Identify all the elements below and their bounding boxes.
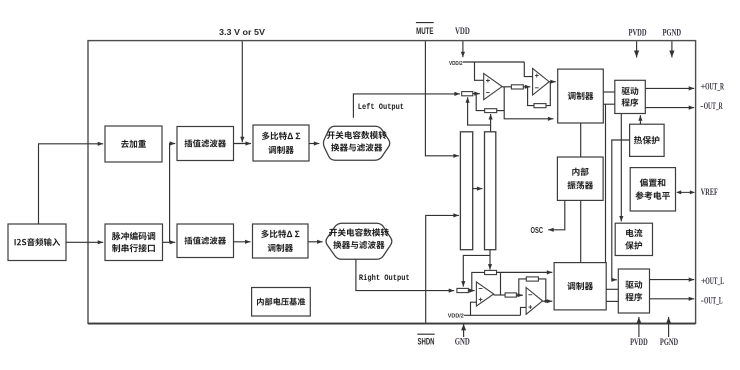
wire R1 to U1 inverting input (473, 92, 480, 96)
wire GND to frame (arrow up) (461, 324, 466, 337)
net label OSC (531, 225, 544, 235)
wire Left Output from DAC to amplifier input (353, 92, 460, 118)
svg-text:PVDD: PVDD (630, 338, 648, 348)
op-amp U1 (484, 73, 502, 99)
wire 3.3V supply into digital section (240, 41, 244, 142)
wire I2S input to PCM serial interface (66, 240, 103, 244)
resistor R4 U2 feedback (534, 104, 546, 108)
wire U1 feedback loop (476, 94, 485, 111)
wire bottom interpolation filter to multibit modulator (234, 240, 251, 244)
block output driver (top) (615, 80, 646, 113)
wire top interpolation filter to multibit modulator (234, 141, 252, 145)
block PWM modulator (bottom) (554, 263, 606, 310)
pin -OUT_L (701, 296, 723, 307)
svg-text:VREF: VREF (701, 187, 718, 198)
block internal voltage reference (252, 288, 311, 317)
resistor R1 top-channel input (462, 92, 473, 96)
resistor R6 U3 feedback (485, 270, 497, 274)
op-amp U3 (476, 282, 493, 306)
resistor R2 U1 feedback (485, 109, 497, 113)
svg-text:Right Output: Right Output (359, 273, 410, 283)
IC boundary frame (88, 41, 696, 324)
wire PVDD (bottom) arrow into frame (636, 317, 641, 337)
wire -OUT_R output (645, 106, 694, 110)
wire U2 feedback to output (546, 82, 550, 106)
svg-text:MUTE: MUTE (416, 26, 433, 36)
wire U3 output node riser (500, 272, 502, 295)
wire SHDN to DWA block (426, 213, 459, 322)
block PCM serial interface (105, 224, 163, 261)
node VDD/2 rail (bottom) (464, 314, 521, 316)
wire U2 feedback loop (528, 87, 534, 106)
wire R3 to U2 inverting input (523, 85, 530, 89)
wire U3 feedback to output node and second modulator input (497, 270, 553, 274)
pin -OUT_R (700, 101, 723, 112)
svg-text:Left Output: Left Output (358, 102, 404, 112)
wire PGND (top) into frame (669, 41, 674, 57)
wire column2 bottom to R6 feedback (arrow down) (488, 255, 492, 269)
block thermal protection (630, 124, 665, 156)
wire VDD to VDD/2 reference (top) (461, 41, 465, 57)
net label Left Output (358, 102, 404, 112)
wire oscillator OSC tap (548, 200, 565, 232)
pin GND (455, 337, 470, 348)
svg-text:PGND: PGND (660, 338, 678, 348)
wire MUTE to DWA block (425, 41, 459, 158)
block PWM modulator (top) (558, 69, 604, 123)
wire top modulator to SC-DAC (309, 141, 319, 145)
wire column1 to column2 (473, 187, 483, 191)
pin PVDD (top) (629, 29, 647, 39)
wire R7 to U4 inverting input (516, 293, 523, 297)
resistor R7 interstage (505, 293, 516, 297)
junction dot U4 feedback-output (544, 300, 547, 303)
resistor R5 bottom-channel input (457, 288, 469, 292)
block bias and reference level (630, 168, 675, 211)
block interpolation filter (bottom) (177, 224, 234, 258)
wire VREF bidirectional (676, 190, 695, 194)
wire modulator to driver (lower) (603, 103, 615, 105)
wire R5 to U3 inverting input (468, 289, 474, 293)
wire Right Output from DAC to amplifier input (356, 259, 454, 293)
wire +OUT_R output (645, 86, 694, 90)
wire U4 output to modulator (543, 299, 553, 303)
wire U4 feedback loop (519, 279, 527, 295)
pin +OUT_R (700, 82, 724, 93)
block multi-bit delta-sigma modulator (bottom) (253, 224, 309, 258)
block de-emphasis (qu-jia-zhong) (105, 126, 162, 162)
wire thermal-protection feed to bottom driver (611, 140, 629, 282)
op-amp U2 (533, 68, 550, 95)
svg-text:SHDN: SHDN (418, 336, 435, 346)
svg-text:OUT_R: OUT_R (705, 82, 725, 93)
wire U3 output to R7 (494, 294, 505, 296)
svg-text:OUT_R: OUT_R (704, 101, 724, 112)
svg-text:VDD/2: VDD/2 (448, 313, 464, 319)
svg-text:VDD/2: VDD/2 (449, 61, 463, 67)
pin MUTE (active-low, overbar) (416, 23, 434, 36)
block current protection (615, 223, 652, 255)
wire top driver to current-protection (619, 114, 623, 222)
op-amp U4 (526, 288, 542, 315)
block DWA switch column 1 (460, 132, 472, 250)
node VDD/2 rail (top) (463, 61, 524, 63)
node VDD/2 label (top) (449, 61, 463, 67)
pin VDD (455, 27, 470, 37)
wire column2 top to R2 feedback (arrow up) (489, 114, 493, 132)
wire U2 output to modulator (549, 80, 556, 84)
block I2S audio input (8, 224, 66, 261)
wire top driver tap down to bottom driver input (605, 104, 607, 262)
wire U4 feedback to output (538, 279, 545, 301)
block switched-capacitor DAC and filter (top hexagon) (323, 126, 389, 160)
pin VREF (701, 187, 718, 198)
block internal oscillator (557, 157, 603, 200)
wire modulator to driver (upper) (603, 91, 615, 93)
wire +OUT_L output (650, 278, 695, 282)
wire U1 output to R3 (502, 86, 511, 88)
block DWA switch column 2 (485, 132, 496, 250)
wire top modulator to oscillator (580, 123, 582, 157)
wire bottom modulator to driver (lower) (606, 300, 618, 302)
wire oscillator to bottom modulator (580, 200, 582, 262)
block interpolation filter (top) (177, 127, 234, 161)
wire VDD/2 to U1 noninverting input (475, 62, 484, 80)
wire VDD/2 to U3 noninverting input (471, 302, 477, 315)
svg-text:OUT_L: OUT_L (704, 296, 723, 307)
block multi-bit delta-sigma modulator (top) (253, 125, 309, 161)
wire thermal protection to top driver (arrow up) (638, 115, 642, 124)
wire VDD/2 to U2 noninverting input (524, 62, 532, 77)
pin SHDN (active-low, overbar) (417, 334, 434, 346)
wire PGND (bottom) arrow into frame (666, 317, 671, 337)
wire U3 feedback loop (472, 272, 485, 290)
resistor R3 interstage (511, 85, 523, 89)
wire VDD/2 to U4 noninverting input (521, 307, 527, 315)
wire column2 bottom branch to R5 (arrow down) (461, 255, 490, 286)
pin PVDD (bottom) (630, 338, 648, 348)
wire U1 output node to second modulator input (504, 87, 553, 121)
wire column2 branch to R1 (arrow up) (466, 97, 491, 125)
wire I2S input riser to de-emphasis (39, 142, 104, 224)
wire bottom modulator to SC-DAC (308, 240, 323, 244)
pin PGND (bottom) (660, 338, 678, 348)
svg-text:OUT_L: OUT_L (705, 276, 724, 287)
pin +OUT_L (701, 276, 724, 287)
node VDD/2 label (bottom) (448, 313, 464, 319)
resistor R8 U4 feedback (526, 277, 538, 281)
svg-text:3.3 V or 5V: 3.3 V or 5V (219, 27, 265, 37)
svg-text:VDD: VDD (455, 27, 470, 37)
block switched-capacitor DAC and filter (bottom hexagon) (326, 223, 392, 259)
supply label 3.3V-or-5V (219, 27, 265, 37)
wire branch riser to top interpolation filter (170, 141, 176, 242)
wire bottom modulator to driver (upper) (606, 288, 618, 290)
wire -OUT_L output (650, 297, 695, 301)
wire PCM output to bottom interpolation filter (163, 240, 176, 244)
block output driver (bottom) (618, 269, 649, 313)
wire PVDD (top) into frame (634, 41, 639, 57)
wire column2 bottom junction (489, 250, 491, 256)
wire U1 feedback to output node (497, 110, 505, 112)
svg-text:GND: GND (455, 337, 470, 348)
svg-text:PVDD: PVDD (629, 29, 647, 39)
svg-text:PGND: PGND (663, 29, 682, 39)
net label Right Output (359, 273, 410, 283)
pin PGND (top) (663, 29, 682, 39)
svg-text:OSC: OSC (531, 225, 544, 235)
